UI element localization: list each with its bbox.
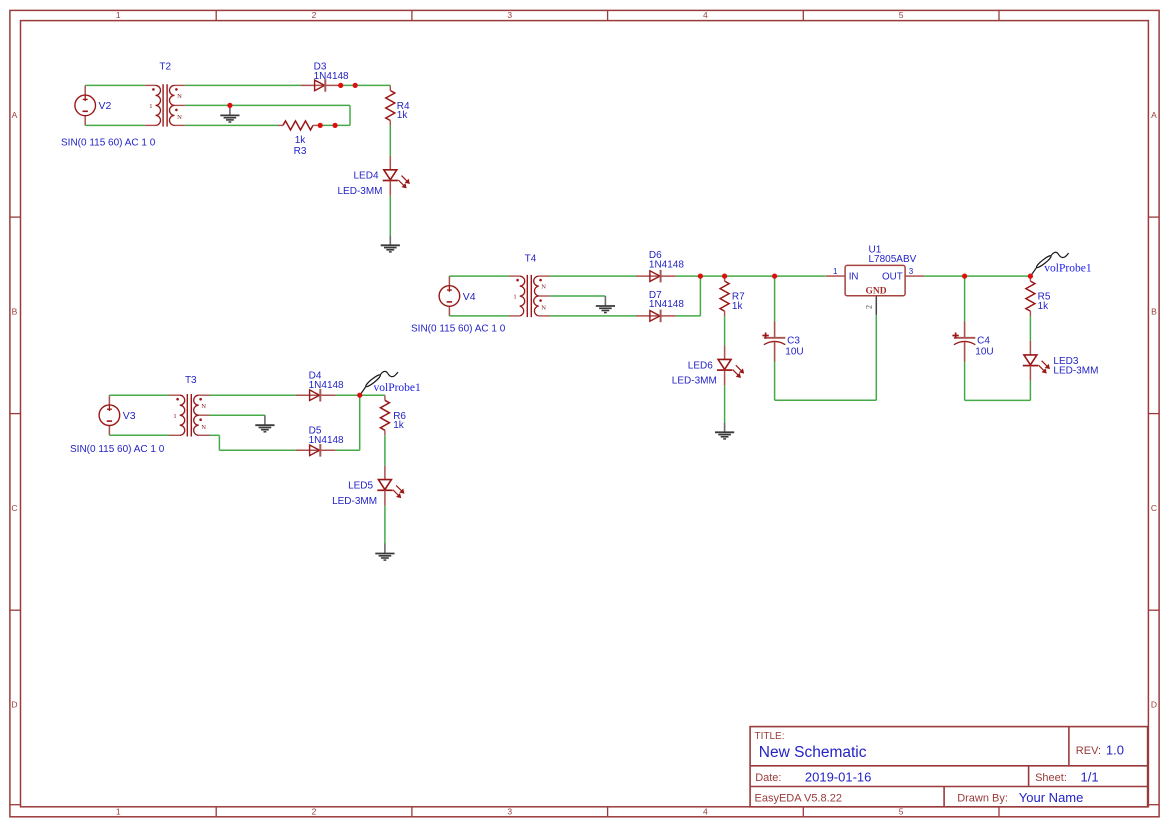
label T3 [185, 375, 197, 386]
wire [389, 126, 391, 156]
junction dot [772, 274, 777, 279]
junction dot [318, 123, 323, 128]
svg-text:2: 2 [865, 305, 874, 309]
svg-text:T4: T4 [525, 253, 537, 264]
diode D6 [636, 250, 684, 282]
ground [596, 296, 615, 313]
border row label B [12, 306, 1158, 316]
svg-text:1N4148: 1N4148 [649, 259, 684, 270]
wire [964, 276, 966, 321]
wire [550, 295, 606, 297]
value label V4 SIN(0 115 60) AC 1 0 [411, 324, 506, 335]
svg-text:1: 1 [173, 413, 176, 420]
svg-text:1k: 1k [1038, 301, 1050, 312]
diode D3 [301, 62, 349, 92]
label T2 [159, 61, 171, 72]
svg-text:D: D [1151, 700, 1157, 710]
wire [774, 362, 776, 401]
net label volProbe1 [1044, 263, 1092, 275]
svg-text:4: 4 [703, 807, 708, 817]
wire [349, 105, 351, 125]
border column tick [802, 10, 804, 816]
wire [676, 275, 826, 277]
wire [219, 449, 295, 451]
svg-text:1: 1 [513, 294, 516, 301]
junction dot [962, 274, 967, 279]
svg-text:3: 3 [507, 10, 512, 20]
svg-text:N: N [541, 305, 546, 312]
svg-text:N: N [201, 424, 206, 431]
regulator U1 L7805ABV [826, 265, 924, 296]
border column label 5 [899, 10, 904, 816]
wire [318, 124, 350, 126]
wire [384, 435, 386, 465]
svg-text:5: 5 [899, 807, 904, 817]
junction dot [338, 83, 343, 88]
capacitor C4 [952, 322, 993, 362]
svg-text:C: C [1151, 503, 1157, 513]
svg-text:REV:: REV: [1076, 745, 1101, 757]
svg-text:R3: R3 [294, 146, 307, 157]
wire [724, 385, 726, 422]
junction dot [333, 123, 338, 128]
svg-text:LED-3MM: LED-3MM [332, 496, 377, 507]
svg-text:SIN(0 115 60) AC 1 0: SIN(0 115 60) AC 1 0 [411, 324, 506, 335]
svg-text:EasyEDA V5.8.22: EasyEDA V5.8.22 [755, 793, 842, 805]
ground [255, 415, 274, 432]
svg-text:1N4148: 1N4148 [309, 435, 344, 446]
junction dot [1028, 274, 1033, 279]
wire [774, 276, 776, 321]
border column tick [411, 10, 413, 816]
voltage probe volProbe1 [360, 371, 398, 394]
label U1 [869, 245, 882, 256]
svg-text:N: N [201, 403, 206, 410]
border column label 1 [116, 10, 121, 816]
wire [389, 196, 391, 236]
wire [924, 275, 1030, 277]
junction dot [722, 274, 727, 279]
svg-text:1/1: 1/1 [1081, 769, 1099, 784]
wire [85, 124, 145, 126]
junction dot [698, 274, 703, 279]
border column tick [998, 10, 1000, 816]
svg-text:IN: IN [849, 271, 859, 282]
capacitor C3 [762, 322, 803, 362]
svg-text:volProbe1: volProbe1 [1044, 263, 1092, 275]
svg-text:1k: 1k [397, 110, 409, 121]
border row label A [12, 110, 1158, 120]
svg-text:C: C [11, 503, 17, 513]
svg-text:Sheet:: Sheet: [1035, 772, 1067, 784]
svg-text:SIN(0 115 60) AC 1 0: SIN(0 115 60) AC 1 0 [70, 444, 165, 455]
svg-text:1k: 1k [393, 420, 405, 431]
svg-text:LED-3MM: LED-3MM [672, 376, 717, 387]
svg-text:Drawn By:: Drawn By: [957, 793, 1008, 805]
wire [449, 315, 509, 317]
border column label 3 [507, 10, 512, 816]
title block title text [759, 744, 867, 761]
voltage probe volProbe1 [1031, 252, 1069, 275]
svg-text:B: B [1151, 306, 1157, 316]
svg-text:4: 4 [703, 10, 708, 20]
diode D5 [296, 426, 344, 457]
svg-text:2019-01-16: 2019-01-16 [805, 769, 872, 784]
wire [210, 394, 296, 396]
svg-text:3: 3 [909, 267, 914, 276]
svg-text:OUT: OUT [882, 271, 903, 282]
diode D4 [296, 371, 344, 402]
svg-text:New Schematic: New Schematic [759, 744, 867, 761]
svg-text:N: N [177, 93, 182, 100]
border row tick [10, 413, 1159, 415]
svg-text:1: 1 [116, 10, 121, 20]
svg-text:10U: 10U [975, 347, 993, 358]
junction dot [357, 393, 362, 398]
svg-text:1: 1 [149, 103, 152, 110]
border column label 4 [703, 10, 708, 816]
wire [449, 275, 509, 277]
svg-text:10U: 10U [785, 347, 803, 358]
wire [676, 315, 701, 317]
svg-text:LED5: LED5 [348, 481, 373, 492]
ground [715, 422, 734, 439]
border row label D [11, 700, 1157, 710]
ac source V2 [75, 85, 112, 125]
wire [550, 275, 636, 277]
svg-text:volProbe1: volProbe1 [374, 382, 422, 394]
junction dot [353, 83, 358, 88]
svg-text:TITLE:: TITLE: [755, 731, 785, 742]
svg-text:LED4: LED4 [353, 171, 378, 182]
svg-text:1k: 1k [295, 135, 307, 146]
wire [109, 394, 169, 396]
title block EasyEDA version [755, 793, 842, 805]
resistor R7 [720, 276, 745, 316]
wire [775, 399, 877, 401]
svg-text:T2: T2 [159, 61, 171, 72]
title block drawn by value [1019, 790, 1084, 805]
svg-text:B: B [12, 306, 18, 316]
svg-text:1k: 1k [732, 301, 744, 312]
svg-text:5: 5 [899, 10, 904, 20]
svg-text:2: 2 [312, 807, 317, 817]
title block frame [750, 727, 1148, 807]
ac source V3 [99, 395, 136, 435]
ground [375, 544, 394, 561]
resistor R5 [1026, 276, 1051, 316]
resistor R3 [278, 121, 318, 157]
svg-text:L7805ABV: L7805ABV [869, 254, 917, 265]
wire [965, 399, 1031, 401]
wire [218, 435, 220, 450]
svg-text:V3: V3 [123, 410, 136, 422]
wire [359, 395, 361, 450]
svg-text:T3: T3 [185, 375, 197, 386]
LED LED3 [1023, 341, 1099, 381]
title block Drawn By label [957, 793, 1008, 805]
transformer T2 [145, 84, 186, 126]
wire [85, 84, 145, 86]
wire [336, 394, 385, 396]
LED LED6 [672, 345, 744, 386]
title block sheet value [1081, 769, 1099, 784]
border row label C [11, 503, 1157, 513]
border row tick [10, 609, 1159, 611]
border column tick [607, 10, 609, 816]
wire [875, 315, 877, 400]
wire [699, 276, 701, 316]
svg-text:1N4148: 1N4148 [309, 380, 344, 391]
svg-text:V4: V4 [463, 291, 476, 303]
border row tick [10, 216, 1159, 218]
net label volProbe1 [374, 382, 422, 394]
label T4 [525, 253, 537, 264]
wire [384, 506, 386, 544]
svg-text:C4: C4 [977, 336, 990, 347]
ac source V4 [439, 276, 476, 316]
diode D7 [636, 290, 684, 322]
title block Date label [755, 772, 781, 784]
svg-text:LED-3MM: LED-3MM [1053, 366, 1098, 377]
junction dot [227, 103, 232, 108]
border column label 2 [312, 10, 317, 816]
wire [550, 315, 636, 317]
label L7805ABV [869, 254, 917, 265]
ground [381, 235, 400, 252]
title block Sheet label [1035, 772, 1067, 784]
wire [185, 124, 278, 126]
svg-text:GND: GND [865, 286, 886, 296]
regulator U1 pin 2 GND [865, 296, 877, 315]
svg-text:1N4148: 1N4148 [649, 299, 684, 310]
wire [336, 449, 360, 451]
transformer T4 [509, 275, 550, 317]
wire [1029, 316, 1031, 341]
svg-text:D: D [11, 700, 17, 710]
wire [964, 362, 966, 401]
wire [109, 434, 169, 436]
border column tick [215, 10, 217, 816]
svg-text:1.0: 1.0 [1106, 742, 1124, 757]
ground [220, 105, 239, 122]
wire [210, 414, 265, 416]
svg-text:Date:: Date: [755, 772, 781, 784]
svg-text:V2: V2 [99, 100, 112, 112]
wire [185, 104, 350, 106]
svg-text:C3: C3 [787, 336, 800, 347]
svg-text:3: 3 [507, 807, 512, 817]
wire [1029, 381, 1031, 401]
title block TITLE label [755, 731, 785, 742]
LED LED4 [337, 156, 409, 197]
resistor R6 [380, 395, 406, 435]
border row tick [10, 804, 1159, 806]
value label V3 SIN(0 115 60) AC 1 0 [70, 444, 165, 455]
svg-text:N: N [541, 284, 546, 291]
title block revision value [1106, 742, 1124, 757]
svg-text:SIN(0 115 60) AC 1 0: SIN(0 115 60) AC 1 0 [61, 137, 156, 148]
LED LED5 [332, 466, 404, 507]
svg-text:A: A [12, 110, 18, 120]
svg-text:1N4148: 1N4148 [314, 71, 349, 82]
resistor R4 [386, 86, 410, 126]
svg-text:1: 1 [116, 807, 121, 817]
svg-text:Your Name: Your Name [1019, 790, 1084, 805]
svg-text:1: 1 [833, 267, 838, 276]
wire [389, 84, 391, 86]
transformer T3 [169, 394, 210, 437]
value label V2 SIN(0 115 60) AC 1 0 [61, 137, 156, 148]
svg-text:N: N [177, 114, 182, 121]
title block REV label [1076, 745, 1101, 757]
title block date value [805, 769, 872, 784]
svg-text:LED-3MM: LED-3MM [337, 186, 382, 197]
svg-text:2: 2 [312, 10, 317, 20]
svg-text:LED6: LED6 [688, 360, 713, 371]
svg-text:A: A [1151, 110, 1157, 120]
wire [724, 316, 726, 345]
wire [210, 434, 220, 436]
wire [185, 84, 300, 86]
wire [341, 84, 391, 86]
